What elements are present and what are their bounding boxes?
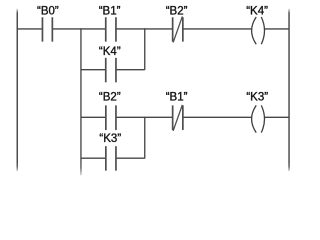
svg-text:“K4”: “K4” [246, 5, 268, 17]
wire rung1 seg3 [116, 28, 173, 30]
wire rung1 seg2 [52, 28, 105, 30]
contact B1 [106, 17, 116, 41]
wire rung1 seg4 [183, 28, 252, 30]
svg-text:“B2”: “B2” [166, 5, 188, 17]
wire rung2 seg4 [265, 116, 289, 118]
contact B2 NC rung1 [173, 16, 183, 42]
left power rail [16, 9, 18, 171]
right power rail [288, 9, 290, 171]
svg-text:“K4”: “K4” [99, 46, 121, 58]
contact B0 [42, 17, 52, 41]
wire branch vertical [80, 28, 82, 175]
wire rung2 seg1 [81, 116, 106, 118]
wire rung1 seg5 [265, 28, 289, 30]
wire join vertical rung1 [144, 28, 146, 70]
contact K4 branch [106, 58, 116, 82]
svg-text:“B1”: “B1” [99, 5, 121, 17]
coil K4 [252, 17, 265, 44]
wire rung2 seg3 [183, 116, 252, 118]
wire branch1 seg2 [116, 69, 145, 71]
wire branch2 seg2 [116, 157, 145, 159]
contact B2 rung2 [106, 105, 116, 130]
svg-text:“B2”: “B2” [99, 92, 121, 104]
wire join vertical rung2 [144, 117, 146, 159]
contact K3 branch [106, 146, 116, 171]
svg-text:“K3”: “K3” [246, 92, 268, 104]
wire rung2 seg2 [116, 116, 173, 118]
wire branch1 seg1 [81, 69, 106, 71]
contact B1 NC rung2 [173, 105, 183, 131]
svg-text:“B1”: “B1” [166, 92, 188, 104]
coil K3 [252, 105, 265, 132]
svg-text:“K3”: “K3” [99, 133, 121, 145]
svg-text:“B0”: “B0” [37, 5, 59, 17]
wire branch2 seg1 [81, 157, 106, 159]
wire rung1 seg1 [17, 28, 42, 30]
